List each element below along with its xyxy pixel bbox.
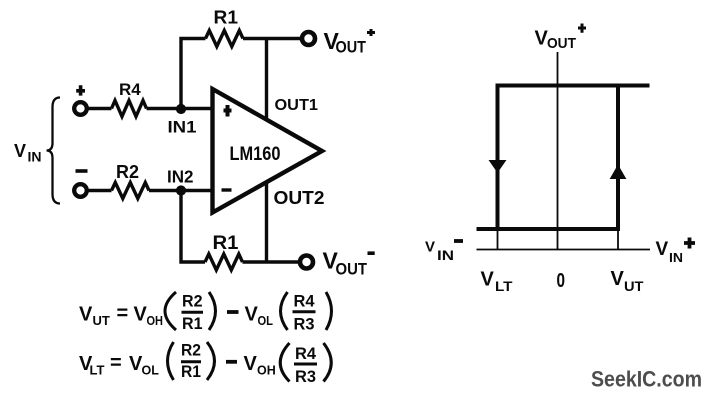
svg-text:=: =: [117, 303, 129, 325]
svg-text:UT: UT: [93, 313, 110, 328]
svg-text:V: V: [245, 304, 259, 326]
svg-text:0: 0: [557, 270, 566, 292]
svg-text:IN: IN: [437, 247, 454, 263]
svg-text:R1: R1: [181, 362, 201, 381]
svg-text:R1: R1: [182, 314, 203, 333]
svg-text:R4: R4: [294, 292, 316, 311]
svg-text:R1: R1: [214, 7, 239, 27]
svg-text:LT: LT: [495, 278, 513, 294]
svg-text:R4: R4: [295, 344, 317, 363]
svg-text:V: V: [14, 141, 26, 161]
svg-text:IN1: IN1: [168, 119, 197, 137]
svg-text:LM160: LM160: [230, 144, 281, 165]
svg-text:R4: R4: [119, 80, 141, 99]
svg-text:UT: UT: [624, 278, 644, 294]
svg-text:R2: R2: [116, 162, 139, 182]
svg-text:OH: OH: [147, 314, 164, 328]
svg-text:OUT1: OUT1: [275, 97, 319, 114]
svg-text:OH: OH: [257, 364, 276, 378]
svg-text:SeekIC.com: SeekIC.com: [591, 367, 702, 392]
svg-text:=: =: [110, 352, 122, 374]
svg-text:V: V: [425, 239, 435, 256]
svg-text:V: V: [481, 269, 495, 291]
svg-text:OUT: OUT: [336, 261, 368, 279]
svg-text:LT: LT: [90, 363, 105, 378]
svg-text:R2: R2: [181, 341, 201, 360]
svg-text:OUT2: OUT2: [274, 188, 325, 208]
svg-text:OUT: OUT: [336, 39, 367, 57]
svg-text:V: V: [134, 304, 148, 326]
svg-text:V: V: [244, 353, 258, 375]
svg-text:R2: R2: [182, 292, 203, 311]
svg-text:OUT: OUT: [547, 35, 576, 52]
svg-text:IN2: IN2: [167, 167, 194, 187]
svg-text:R1: R1: [213, 233, 239, 254]
svg-text:OL: OL: [258, 314, 274, 328]
svg-text:IN: IN: [28, 149, 42, 165]
svg-text:R3: R3: [295, 367, 316, 386]
svg-text:OL: OL: [142, 364, 160, 378]
svg-text:V: V: [79, 304, 93, 326]
svg-text:IN: IN: [669, 250, 683, 265]
svg-text:R3: R3: [294, 315, 315, 334]
svg-text:V: V: [656, 239, 669, 260]
svg-text:V: V: [611, 268, 625, 290]
